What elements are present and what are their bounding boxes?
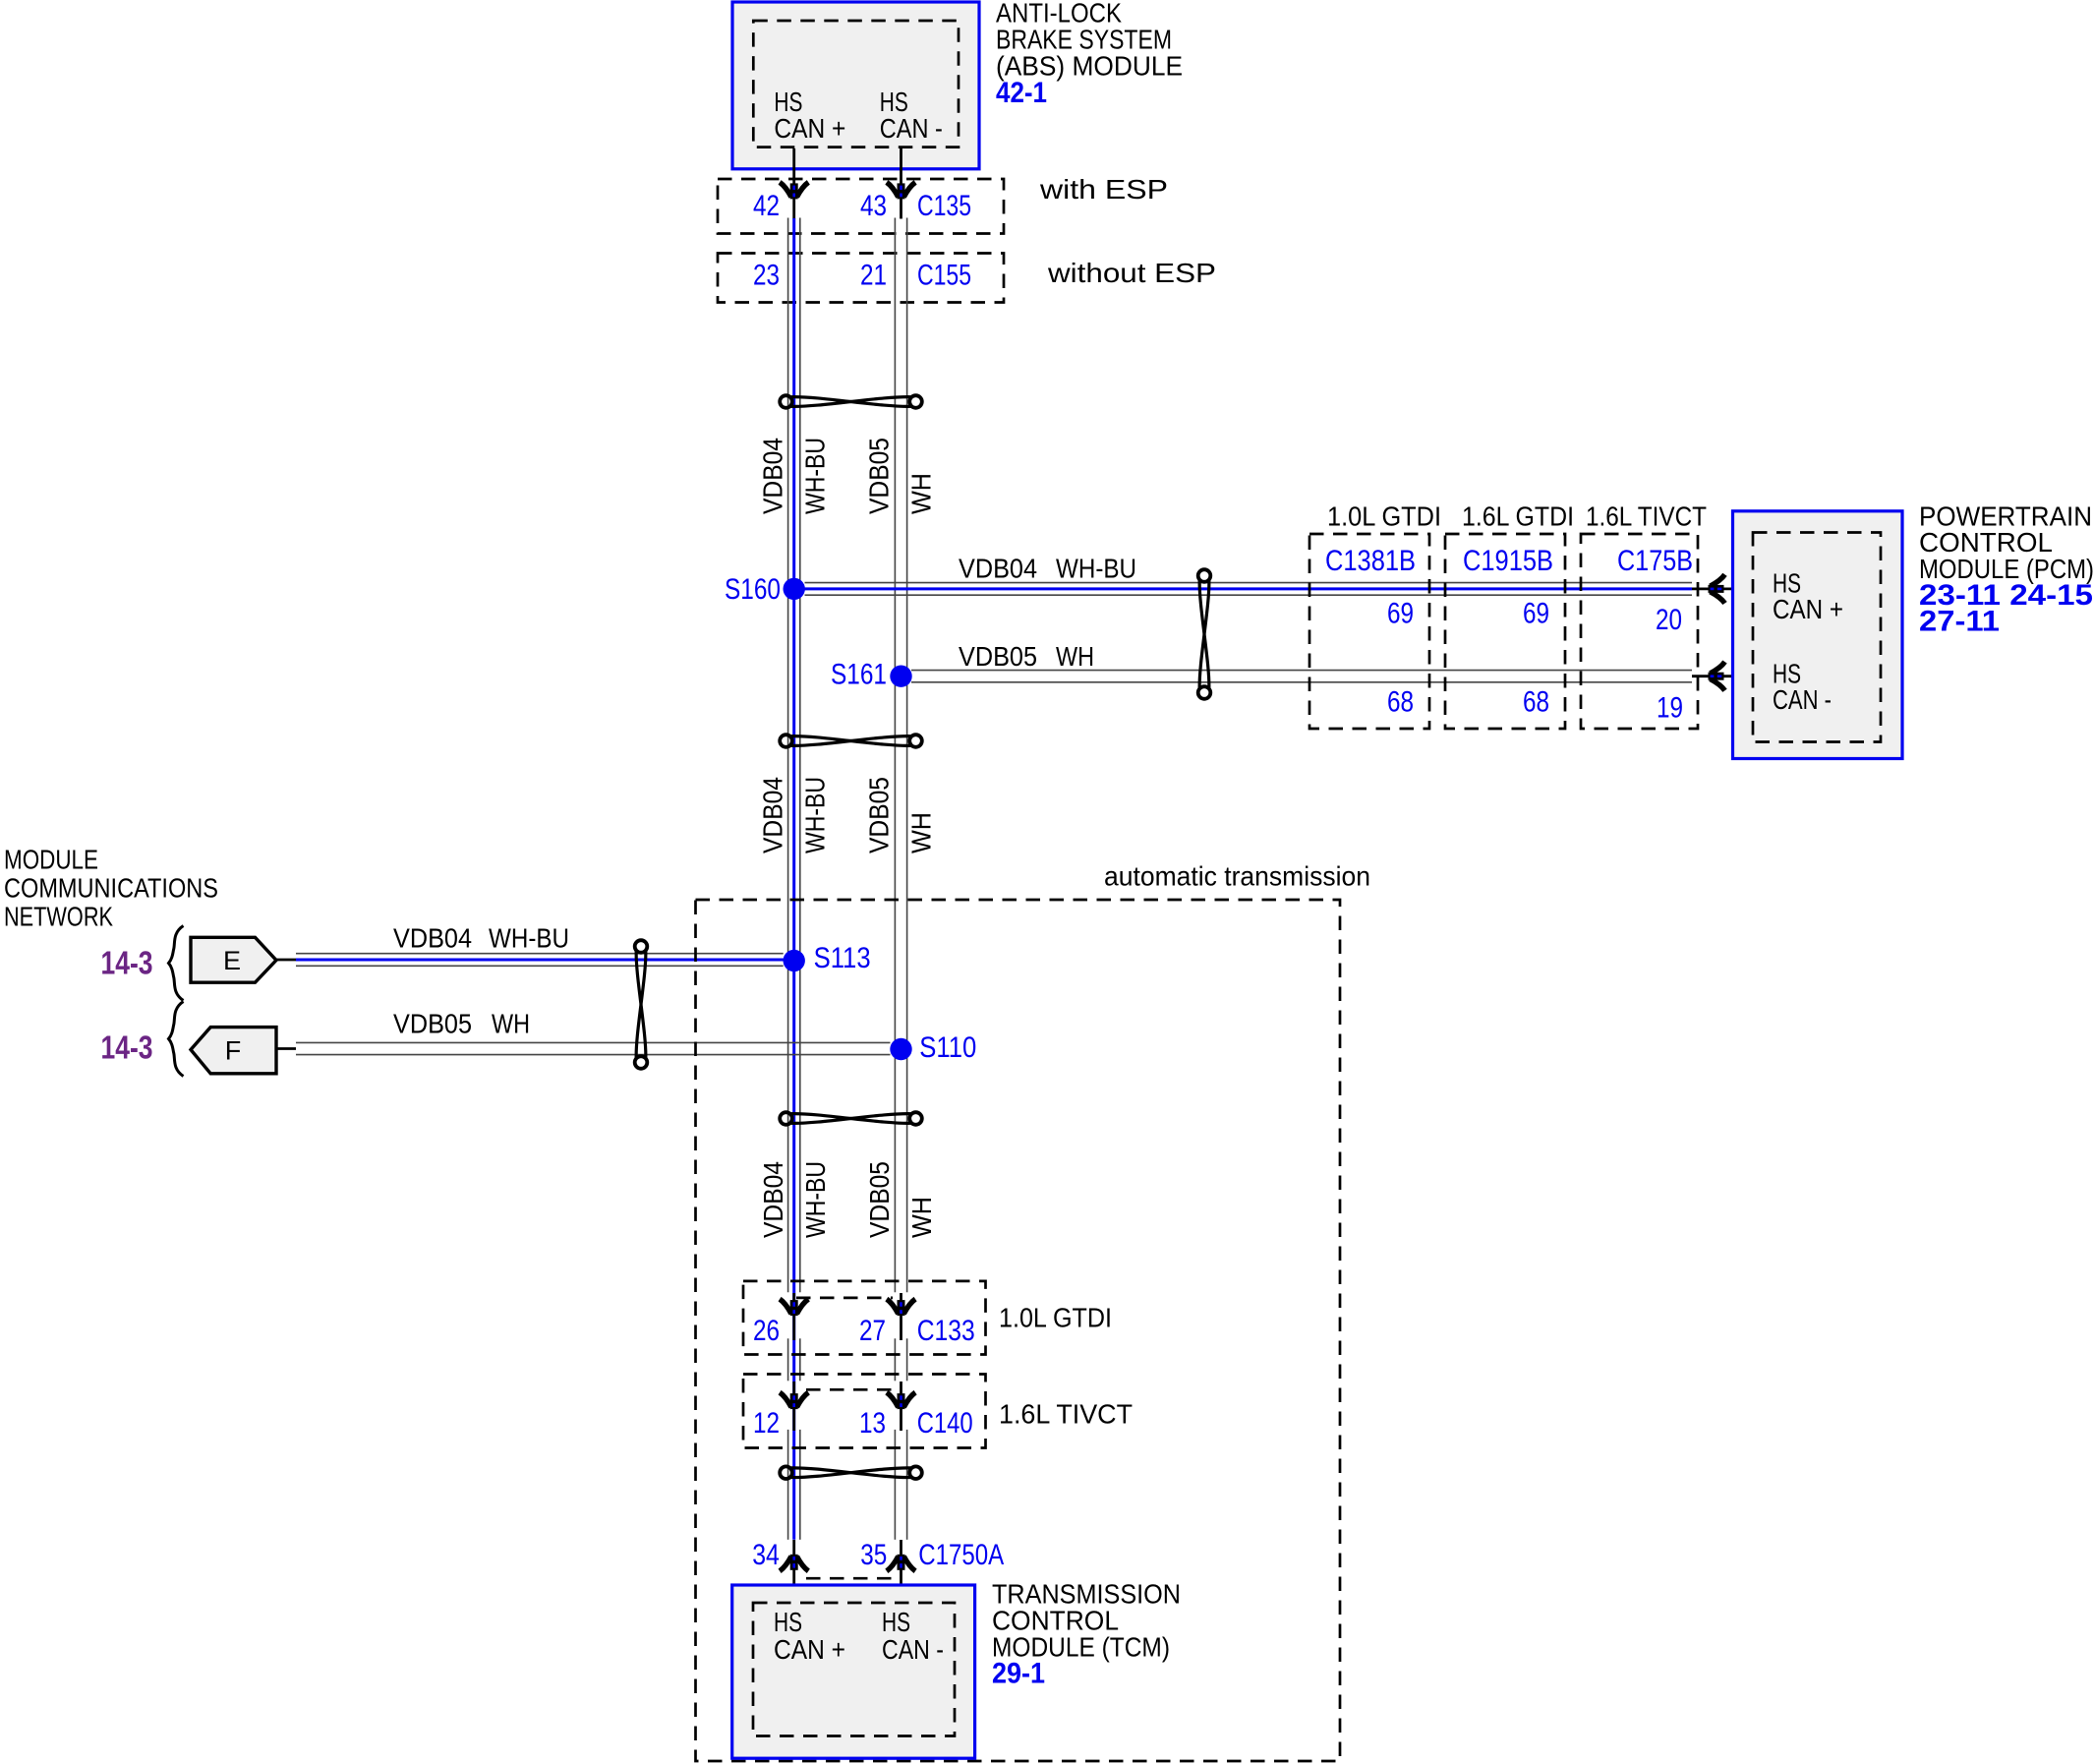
PCM HS CAN - lead wire — [1692, 675, 1753, 677]
PCM HS CAN + lead wire — [1692, 588, 1753, 591]
pin 42 lead wire — [792, 148, 795, 219]
svg-text:F: F — [225, 1036, 242, 1066]
twisted pair symbol (below S113/S110) — [780, 1112, 922, 1125]
automatic transmission dashed box — [696, 900, 1341, 1761]
svg-text:21: 21 — [860, 260, 887, 292]
wire VDB05 WH vertical (white outline) — [894, 218, 896, 1293]
svg-text:1.6L GTDI: 1.6L GTDI — [1462, 501, 1574, 532]
svg-text:WH-BU: WH-BU — [1056, 554, 1136, 584]
svg-text:WH: WH — [906, 812, 937, 853]
svg-text:MODULE: MODULE — [4, 845, 98, 875]
svg-text:68: 68 — [1523, 686, 1549, 719]
splice S113 — [784, 950, 805, 971]
svg-text:CAN +: CAN + — [1773, 594, 1843, 624]
svg-text:VDB04: VDB04 — [758, 777, 788, 853]
svg-text:26: 26 — [753, 1315, 780, 1347]
pin 27 lead wire — [900, 1293, 902, 1340]
connector C1750A dashed edge — [806, 1577, 892, 1580]
pin 34 lead wire — [792, 1540, 795, 1603]
svg-text:VDB04: VDB04 — [959, 554, 1037, 584]
svg-text:C1915B: C1915B — [1463, 545, 1553, 577]
svg-text:1.6L TIVCT: 1.6L TIVCT — [999, 1399, 1133, 1430]
pin 43 lead wire — [900, 148, 902, 219]
twisted pair symbol (below C155) — [780, 395, 922, 408]
pin 43 connector arrow — [887, 182, 915, 199]
svg-text:CAN -: CAN - — [880, 113, 943, 144]
pin 35 connector arrow — [887, 1555, 915, 1571]
svg-text:automatic transmission: automatic transmission — [1104, 861, 1370, 892]
twisted pair symbol (E/F wires) — [635, 940, 648, 1069]
svg-text:CAN +: CAN + — [774, 113, 845, 144]
svg-text:CAN -: CAN - — [1773, 684, 1832, 715]
connector C175B box — [1581, 534, 1698, 729]
svg-text:19: 19 — [1657, 692, 1683, 725]
svg-text:VDB04: VDB04 — [758, 1161, 788, 1238]
svg-text:C135: C135 — [917, 190, 971, 222]
pin 12 connector arrow — [780, 1392, 808, 1409]
wire VDB05 WH horizontal to PCM (white outline) — [911, 670, 1692, 672]
svg-text:69: 69 — [1523, 598, 1549, 630]
svg-text:C1381B: C1381B — [1325, 545, 1416, 577]
svg-text:34: 34 — [752, 1539, 780, 1571]
connector C140 inner dashed edge — [806, 1388, 893, 1391]
twisted pair symbol (below S160/S161) — [780, 735, 922, 747]
svg-text:S113: S113 — [814, 942, 871, 974]
svg-text:27: 27 — [859, 1315, 886, 1347]
svg-text:with ESP: with ESP — [1039, 174, 1168, 205]
connector C140 box — [743, 1375, 986, 1448]
svg-text:WH-BU: WH-BU — [800, 438, 831, 514]
wire VDB05 WH horizontal from F (white outline) — [296, 1041, 891, 1043]
svg-text:WH-BU: WH-BU — [489, 923, 569, 954]
splice S161 — [890, 666, 911, 687]
svg-text:without ESP: without ESP — [1047, 258, 1216, 288]
wire VDB04 blue stripe vertical — [792, 218, 795, 1540]
svg-text:VDB05: VDB05 — [864, 438, 895, 514]
connector C133 inner dashed edge — [796, 1297, 893, 1300]
connector C155 box (without ESP) — [718, 254, 1004, 303]
in-line connector F — [191, 1028, 276, 1074]
pin 13 connector arrow — [887, 1392, 915, 1409]
twisted pair symbol (below C140) — [780, 1466, 922, 1479]
in-line connector E — [191, 937, 276, 982]
svg-text:C175B: C175B — [1617, 545, 1693, 577]
PCM module inner dashed box — [1753, 533, 1881, 742]
svg-text:E: E — [223, 946, 241, 975]
svg-text:42-1: 42-1 — [996, 77, 1047, 109]
wire VDB04 WH-BU horizontal from E (white outline) — [296, 953, 784, 955]
svg-text:S161: S161 — [831, 659, 887, 691]
svg-text:S160: S160 — [725, 573, 781, 606]
svg-text:29-1: 29-1 — [992, 1658, 1045, 1690]
wire VDB04 blue stripe from E — [296, 959, 786, 962]
svg-text:CAN -: CAN - — [882, 1634, 944, 1665]
svg-text:35: 35 — [860, 1539, 887, 1571]
pin 27 connector arrow — [887, 1299, 915, 1316]
wire VDB04 WH-BU vertical (white outline) — [787, 218, 789, 1293]
svg-text:VDB04: VDB04 — [758, 438, 788, 514]
pin 34 connector arrow — [780, 1555, 808, 1571]
svg-text:69: 69 — [1387, 598, 1414, 630]
pin 26 connector arrow — [780, 1299, 808, 1316]
wire VDB04 blue stripe horizontal — [794, 587, 1692, 590]
connector F lead wire — [276, 1047, 296, 1050]
svg-text:S110: S110 — [919, 1031, 976, 1064]
svg-text:WH: WH — [906, 473, 937, 514]
connector C133 box — [743, 1281, 986, 1355]
pin 42 connector arrow — [780, 182, 808, 199]
svg-text:WH-BU: WH-BU — [800, 777, 831, 853]
svg-text:NETWORK: NETWORK — [4, 902, 113, 932]
svg-text:WH: WH — [1056, 641, 1094, 672]
svg-text:HS: HS — [774, 1607, 802, 1637]
svg-text:27-11: 27-11 — [1919, 606, 2000, 638]
pin 13 lead wire — [900, 1382, 902, 1431]
svg-text:VDB04: VDB04 — [393, 923, 472, 954]
connector E lead wire — [276, 959, 296, 962]
TCM module box — [732, 1585, 975, 1758]
connector C1915B box — [1445, 534, 1565, 729]
twisted pair symbol (horizontal wires to PCM) — [1198, 569, 1211, 699]
svg-text:1.6L TIVCT: 1.6L TIVCT — [1586, 501, 1707, 532]
pin 35 lead wire — [900, 1540, 902, 1603]
connector C1381B box — [1309, 534, 1429, 729]
svg-text:C1750A: C1750A — [918, 1539, 1004, 1571]
ABS module inner dashed box — [753, 21, 959, 147]
svg-text:1.0L GTDI: 1.0L GTDI — [1327, 501, 1441, 532]
pin 26 lead wire — [792, 1293, 795, 1340]
svg-text:23: 23 — [753, 260, 780, 292]
svg-text:14-3: 14-3 — [101, 945, 153, 981]
svg-text:VDB05: VDB05 — [864, 1161, 895, 1238]
brace (E) — [169, 926, 184, 1001]
svg-text:68: 68 — [1387, 686, 1414, 719]
svg-text:1.0L GTDI: 1.0L GTDI — [999, 1303, 1112, 1333]
PCM HS CAN + connector arrow — [1709, 574, 1725, 603]
ABS module box — [732, 2, 979, 169]
svg-text:WH: WH — [906, 1197, 937, 1238]
svg-text:WH: WH — [492, 1009, 530, 1039]
svg-text:20: 20 — [1656, 604, 1682, 636]
svg-text:CAN +: CAN + — [774, 1634, 845, 1665]
svg-text:HS: HS — [882, 1607, 910, 1637]
svg-text:C133: C133 — [917, 1315, 975, 1347]
brace (F) — [169, 1002, 184, 1077]
svg-text:14-3: 14-3 — [101, 1029, 153, 1066]
svg-text:WH-BU: WH-BU — [800, 1161, 831, 1238]
connector C135 box (with ESP) — [718, 179, 1004, 234]
TCM module inner dashed box — [753, 1603, 955, 1736]
svg-text:VDB05: VDB05 — [959, 641, 1037, 672]
svg-text:42: 42 — [753, 190, 780, 222]
svg-text:C155: C155 — [917, 260, 971, 292]
svg-text:VDB05: VDB05 — [393, 1009, 472, 1039]
svg-text:43: 43 — [860, 190, 887, 222]
svg-text:COMMUNICATIONS: COMMUNICATIONS — [4, 873, 218, 904]
wire VDB04 WH-BU horizontal to PCM (white outline) — [805, 582, 1693, 584]
svg-text:13: 13 — [859, 1407, 886, 1440]
pin 12 lead wire — [792, 1382, 795, 1431]
svg-text:12: 12 — [753, 1407, 780, 1440]
svg-text:VDB05: VDB05 — [864, 777, 895, 853]
PCM module box — [1733, 511, 1903, 759]
splice S160 — [784, 578, 805, 600]
splice S110 — [890, 1038, 911, 1060]
svg-text:C140: C140 — [917, 1407, 973, 1440]
PCM HS CAN - connector arrow — [1709, 662, 1725, 690]
